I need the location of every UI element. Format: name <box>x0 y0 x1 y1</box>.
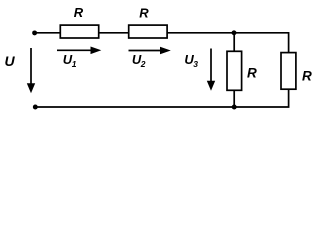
wire between R1 and R2 <box>99 32 129 34</box>
resistor R1 body <box>60 25 98 38</box>
wire bottom from node C to bottom-left terminal <box>35 106 234 108</box>
svg-text:R: R <box>302 68 312 83</box>
svg-text:2: 2 <box>140 59 146 69</box>
voltage U3 arrow (downward) <box>210 49 212 82</box>
wire from R2 to junction node B <box>167 32 234 34</box>
node B (top junction dot) <box>232 30 237 35</box>
svg-text:U: U <box>5 53 16 69</box>
wire R4 down to bottom-right corner <box>234 89 288 107</box>
voltage U1 arrow (rightward under R1) <box>57 49 92 51</box>
svg-text:R: R <box>74 5 84 20</box>
node C (bottom junction dot) <box>232 105 237 110</box>
node A (top-left terminal dot) <box>32 30 37 35</box>
svg-text:3: 3 <box>193 59 198 69</box>
svg-text:1: 1 <box>72 59 77 69</box>
wire top-left from node to R1 <box>35 32 61 34</box>
resistor R4 body (right vertical) <box>281 53 296 90</box>
resistor R3 body (left vertical) <box>227 51 242 90</box>
wire R3 to bottom junction node C <box>233 90 235 107</box>
resistor R2 body <box>129 25 167 38</box>
wire from node B to top-right corner and down to R4 <box>234 33 289 53</box>
node D (bottom-left terminal dot) <box>33 105 38 110</box>
voltage U2 arrow (rightward under R2) <box>129 50 162 52</box>
svg-text:R: R <box>139 5 149 20</box>
wire node B down to R3 <box>233 33 235 52</box>
svg-text:R: R <box>247 66 257 81</box>
voltage U arrow (downward) <box>30 48 32 85</box>
